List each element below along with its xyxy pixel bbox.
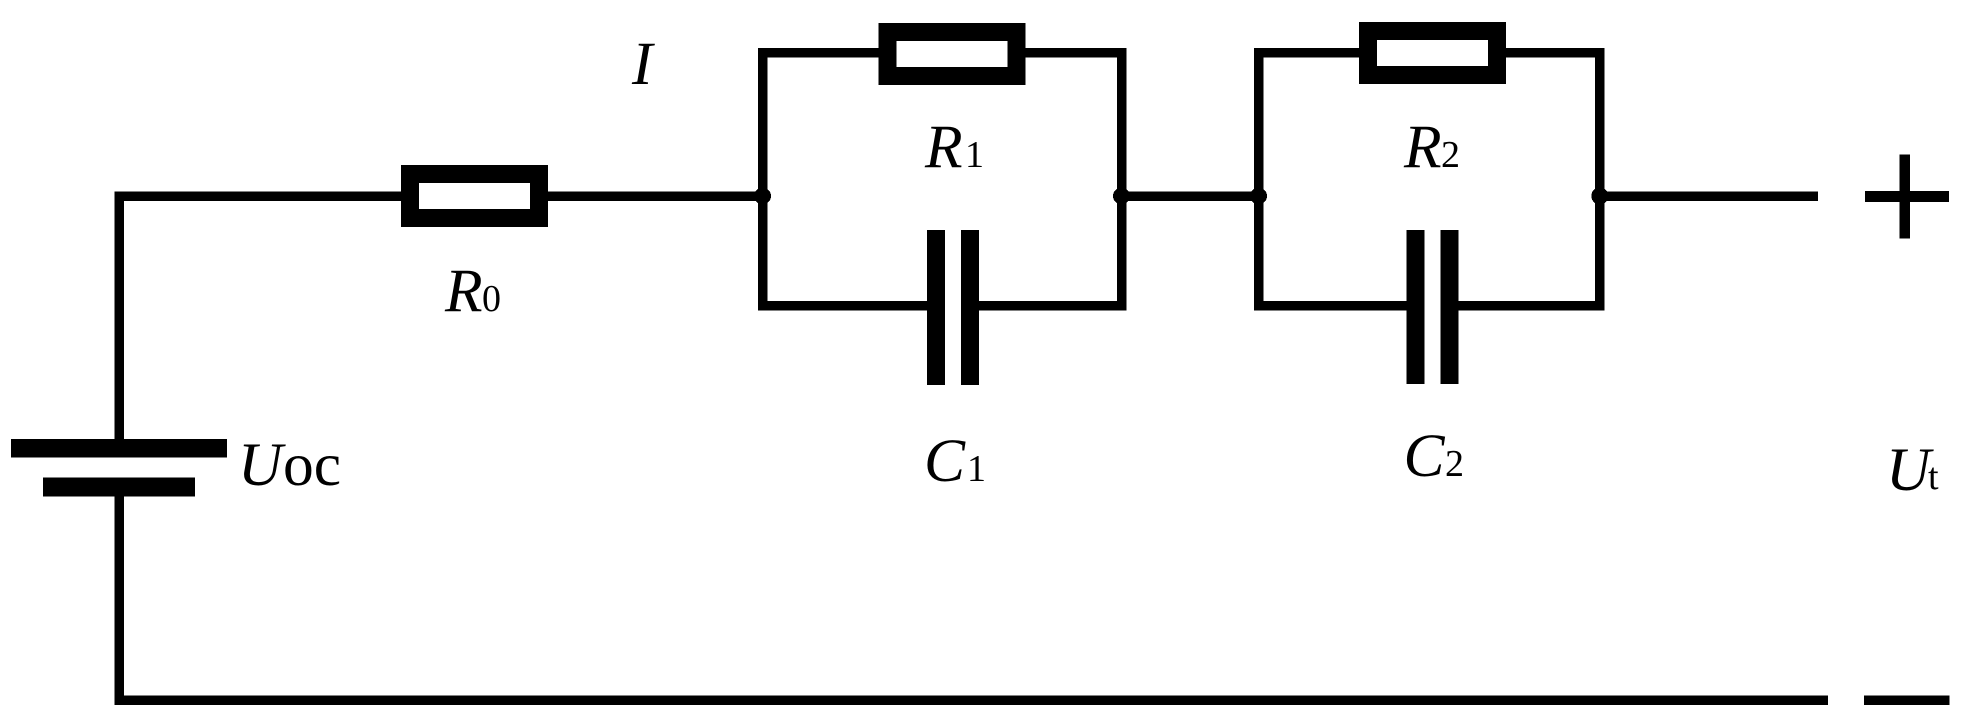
resistor R1 <box>879 23 1026 85</box>
svg-text:R: R <box>924 113 963 181</box>
negative terminal minus sign <box>1864 695 1950 705</box>
node D junction dot (right of R2C2) <box>1591 188 1608 205</box>
node C junction dot (left of R2C2) <box>1250 188 1267 205</box>
capacitor C2 <box>1407 230 1459 384</box>
wire: bottom return rail <box>114 695 1828 705</box>
label C2 <box>1404 422 1465 490</box>
wire: from node D to positive output terminal <box>1595 191 1818 201</box>
positive terminal plus sign <box>1865 155 1949 239</box>
node B junction dot (right of R1C1) <box>1113 188 1130 205</box>
svg-text:U: U <box>1886 436 1934 504</box>
label Uoc <box>238 431 341 499</box>
wire: R2C2 right branch vertical <box>1595 48 1605 311</box>
wire: R2C2 bottom branch left segment <box>1254 301 1407 311</box>
label C1 <box>924 427 986 495</box>
svg-text:2: 2 <box>1441 134 1460 176</box>
svg-text:R: R <box>444 257 483 325</box>
label Ut (terminal voltage) <box>1886 436 1939 504</box>
svg-text:U: U <box>238 431 286 499</box>
wire: main top wire from corner through R0 to node A <box>114 191 767 201</box>
capacitor C1 <box>927 230 979 385</box>
wire: battery negative lead down to bottom rail <box>114 497 124 705</box>
wire: R2C2 bottom branch right segment <box>1459 301 1605 311</box>
wire: R1C1 right branch vertical <box>1117 48 1127 311</box>
label R0 <box>444 257 501 325</box>
label R1 <box>924 113 984 181</box>
svg-text:C: C <box>1404 422 1446 490</box>
svg-text:I: I <box>631 30 655 98</box>
wire: battery positive lead up to top-left corner <box>114 191 124 439</box>
wire: R2C2 left branch vertical <box>1254 48 1264 311</box>
battery Uoc <box>11 439 227 497</box>
wire: R1C1 top branch horizontal <box>758 48 1127 58</box>
label R2 <box>1403 113 1460 181</box>
svg-text:1: 1 <box>967 448 986 490</box>
svg-text:oc: oc <box>283 431 341 499</box>
wire: between R1C1 and R2C2 <box>1117 191 1264 201</box>
svg-text:2: 2 <box>1445 443 1464 485</box>
resistor R2 <box>1359 22 1506 84</box>
svg-text:t: t <box>1928 456 1939 498</box>
svg-text:C: C <box>924 427 966 495</box>
wire: R1C1 left branch vertical <box>758 48 768 311</box>
wire: R1C1 bottom branch right segment <box>979 301 1126 311</box>
svg-text:0: 0 <box>482 278 501 320</box>
wire: R1C1 bottom branch left segment <box>758 301 927 311</box>
label I (current) <box>631 30 655 98</box>
resistor R0 <box>401 165 548 227</box>
wire: R2C2 top branch horizontal <box>1254 48 1605 58</box>
node A junction dot (left of R1C1) <box>754 188 771 205</box>
svg-text:1: 1 <box>965 134 984 176</box>
svg-text:R: R <box>1403 113 1442 181</box>
